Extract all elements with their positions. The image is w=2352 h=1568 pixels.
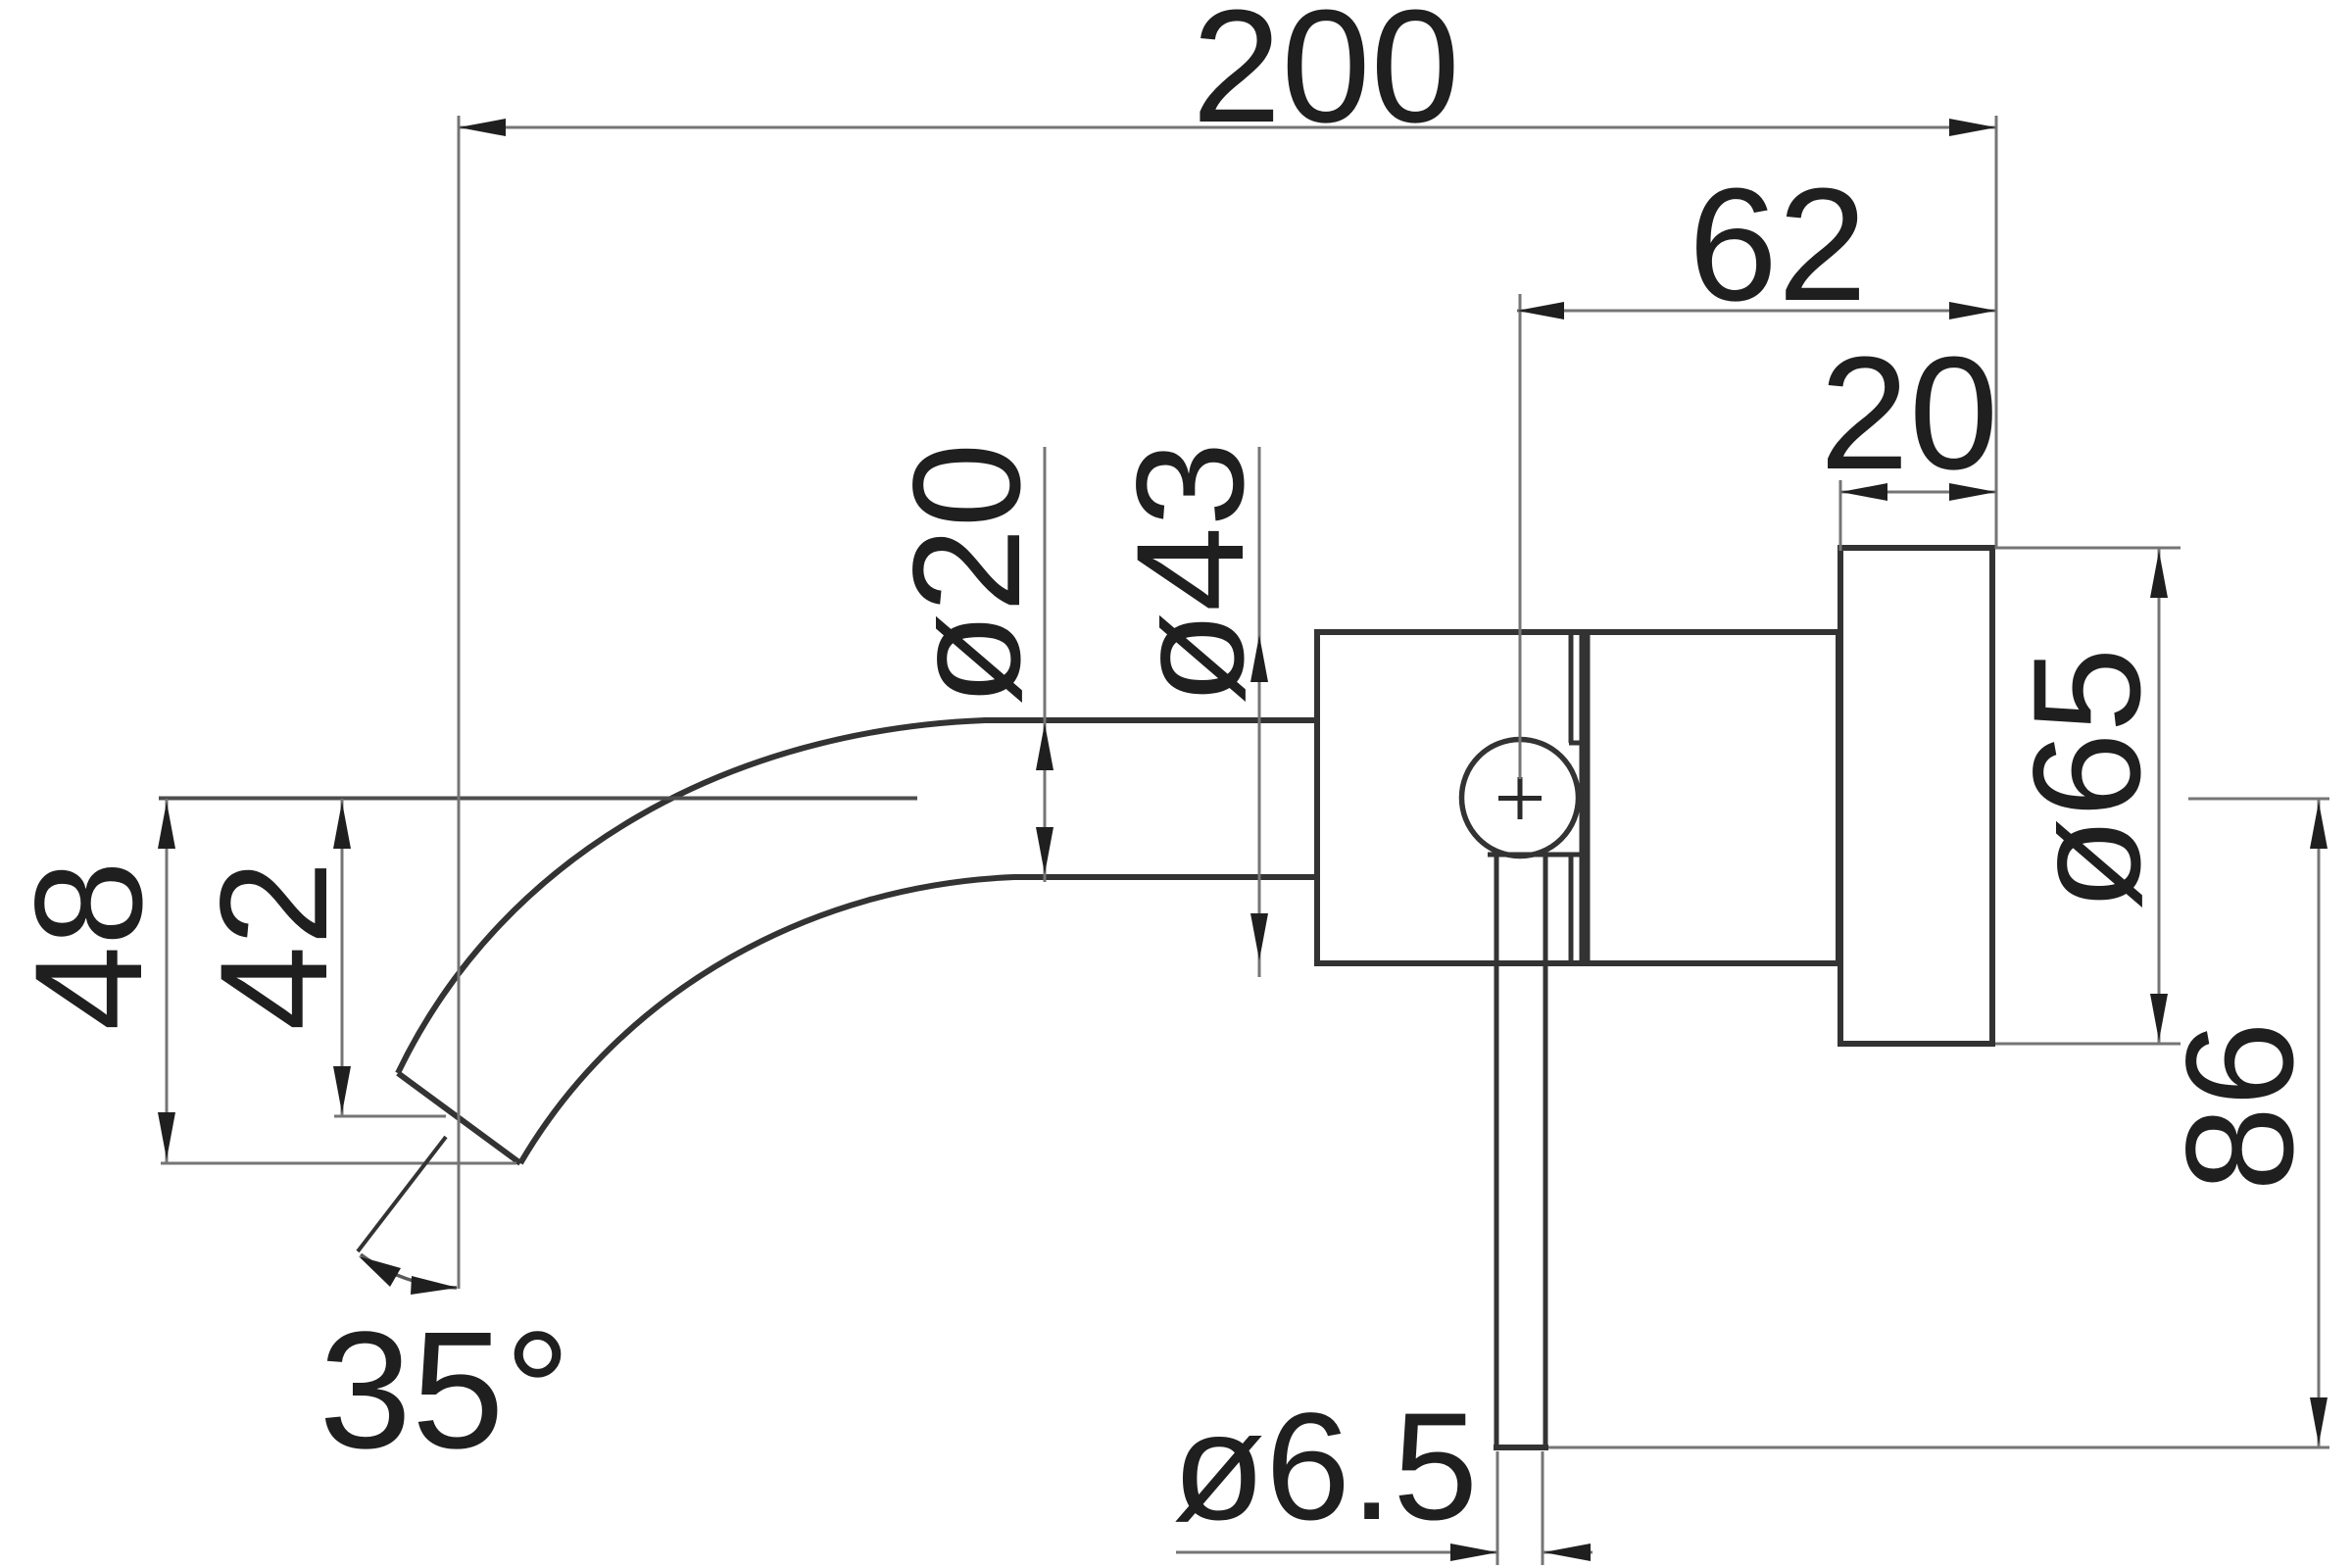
svg-text:48: 48 [4, 860, 174, 1031]
extension line diam65 top [1995, 547, 2180, 550]
svg-text:ø65: ø65 [2002, 648, 2173, 911]
arrow 86 down [2310, 1397, 2327, 1445]
valve body outline [1317, 632, 1838, 963]
body ring band [1580, 632, 1591, 963]
svg-text:62: 62 [1689, 155, 1867, 334]
pivot cross horizontal [1498, 796, 1542, 801]
dimension line 20 [1840, 491, 1996, 494]
arrow diam65 down [2150, 994, 2168, 1041]
angle 35 arc [361, 1254, 457, 1288]
svg-text:ø20: ø20 [882, 443, 1053, 707]
handle pivot circle [1462, 740, 1579, 857]
arrow diam43 down [1250, 913, 1268, 960]
arrow diam65 up [2150, 551, 2168, 598]
body internal divider upper [1569, 632, 1574, 743]
arrow diam6.5 left [1450, 1543, 1497, 1561]
svg-text:20: 20 [1820, 323, 1998, 503]
wall flange plate [1840, 548, 1992, 1044]
spout outlet cut face [398, 1073, 520, 1163]
body internal divider lower [1569, 855, 1574, 963]
svg-text:200: 200 [1192, 0, 1460, 156]
arrow 20 left [1840, 483, 1887, 501]
svg-text:86: 86 [2155, 1021, 2326, 1192]
centerline axis [159, 797, 917, 801]
dimension line 86 [2318, 799, 2321, 1447]
arrow 86 up [2310, 802, 2327, 849]
arrow 48 up [158, 802, 175, 849]
dimension line 62 [1517, 310, 1996, 313]
extension line diam65 bottom [1995, 1043, 2180, 1046]
dimension line 42 [341, 799, 344, 1116]
extension line 86 top [2188, 798, 2329, 801]
angle 35 slant leg [358, 1137, 446, 1251]
recess notch bottom [1569, 853, 1581, 857]
extension line 20 (flange left) [1839, 480, 1842, 551]
extension line right (200/62/20 dims, wall face) [1995, 116, 1998, 549]
extension line 62 (pivot center) [1519, 294, 1522, 779]
arrow diam20 down [1036, 827, 1053, 874]
handle top joint line [1488, 853, 1577, 857]
extension line diam20 [1044, 447, 1047, 882]
extension line 48 bottom [161, 1162, 516, 1165]
arrow 20 right [1949, 483, 1996, 501]
arrow diam20 up [1036, 723, 1053, 770]
handle bottom cap [1494, 1445, 1548, 1450]
extension line 42 bottom [334, 1115, 446, 1118]
dimension line diam6.5 left [1176, 1551, 1497, 1554]
extension line 86 bottom [1548, 1446, 2329, 1449]
arrow 42 down [333, 1066, 351, 1113]
dimension line 200 [459, 126, 1996, 129]
extension line d65 handle left [1496, 1451, 1499, 1565]
dimension line diam6.5 right [1543, 1551, 1592, 1554]
arrow 35 arc right [411, 1276, 458, 1295]
arrow 48 down [158, 1112, 175, 1159]
arrow 35 arc left [359, 1256, 401, 1287]
arrow 62 right [1949, 302, 1996, 319]
arrow 200 left [459, 119, 506, 136]
handle left edge [1494, 857, 1499, 1447]
svg-text:ø43: ø43 [1105, 442, 1276, 706]
extension line left (200 dim, spout tip) [458, 116, 461, 1289]
extension line diam43 [1258, 447, 1261, 977]
arrow 62 left [1517, 302, 1564, 319]
dimension line diam65 [2158, 548, 2161, 1044]
svg-text:ø6.5: ø6.5 [1172, 1382, 1478, 1552]
dimension line 48 [166, 799, 169, 1162]
svg-text:42: 42 [189, 860, 360, 1031]
pivot cross vertical [1518, 777, 1523, 819]
spout outer (top) profile [398, 720, 1319, 1073]
svg-text:35°: 35° [318, 1298, 570, 1484]
arrow diam6.5 right [1543, 1543, 1591, 1561]
recess notch top [1569, 741, 1581, 746]
arrow 200 right [1949, 119, 1996, 136]
arrow 42 up [333, 802, 351, 849]
extension line d65 handle right [1542, 1451, 1544, 1565]
arrow diam43 up [1250, 635, 1268, 682]
handle right edge [1543, 857, 1548, 1447]
spout inner (bottom) profile [520, 877, 1319, 1163]
